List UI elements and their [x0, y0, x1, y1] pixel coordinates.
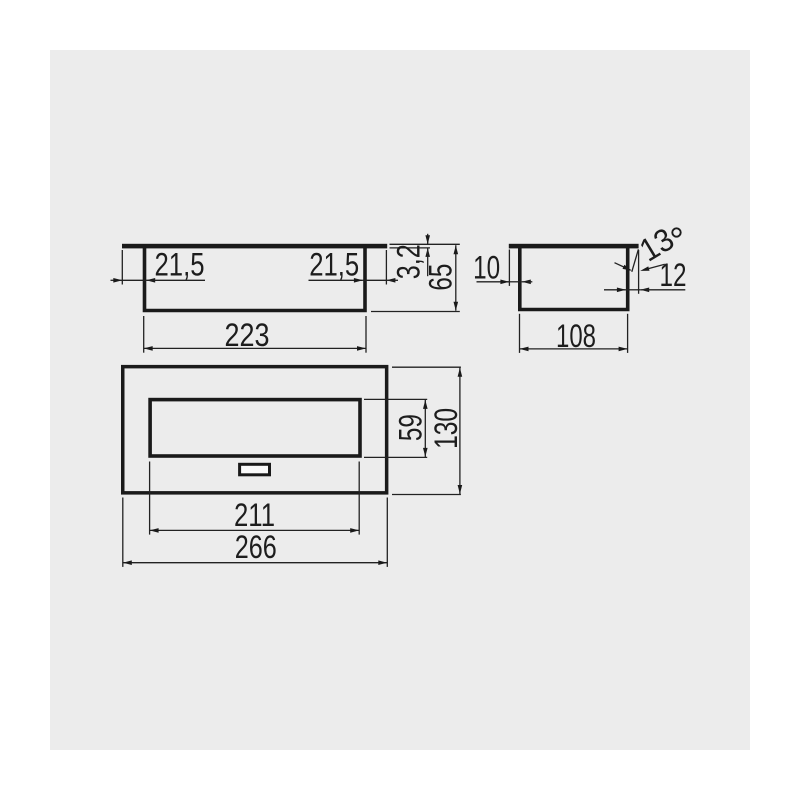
dim 21,5 left: inner tail: [146, 279, 205, 281]
angle leader left arrow: [623, 265, 632, 271]
dim 21,5 right: outer tail: [386, 279, 398, 281]
dim 130: arrow up: [458, 368, 463, 377]
dim 12: arrow right: [617, 288, 626, 293]
svg-text:130: 130: [428, 408, 464, 449]
extension line flange left edge V2: [508, 250, 510, 286]
extension line 211 left: [149, 462, 151, 535]
angle leader right arrow: [640, 266, 649, 271]
outer frame rect: [123, 367, 387, 493]
svg-text:108: 108: [556, 318, 596, 354]
body box V1 (U profile): [145, 248, 366, 311]
handle rect: [240, 464, 270, 475]
dim 266: arrow at right: [378, 560, 387, 565]
dim 21,5 right: span line: [363, 279, 387, 281]
flange plate V1: [122, 244, 387, 249]
drawing canvas background: [50, 50, 750, 750]
svg-text:59: 59: [393, 414, 429, 441]
dim 10: inner tail: [522, 281, 533, 283]
extension line 266 right: [386, 498, 388, 567]
dim 108: line: [520, 348, 628, 350]
dim 21,5 left: span line: [122, 279, 146, 281]
dim 211: line: [150, 529, 360, 531]
svg-text:3,2: 3,2: [391, 244, 427, 279]
dim 108: arrow at right: [619, 347, 628, 352]
extension line flange right edge V2: [638, 250, 640, 294]
dim 130: line: [459, 367, 461, 494]
extension line 59 bottom: [364, 456, 427, 458]
extension line 223 right: [365, 316, 367, 353]
svg-text:21,5: 21,5: [155, 246, 205, 282]
dim 266: line: [123, 562, 388, 564]
dim 130: arrow down: [458, 485, 463, 494]
dim 12: inner tail: [604, 289, 626, 291]
extension line 108 left: [519, 314, 521, 353]
flange plate V2: [509, 244, 639, 249]
dim 59: arrow down: [423, 448, 428, 457]
extension line flange bottom (for 3,2): [390, 247, 431, 249]
dim 59: line: [424, 399, 426, 457]
svg-text:65: 65: [423, 264, 459, 291]
dim 12: arrow left: [640, 288, 649, 293]
inner opening rect: [150, 400, 360, 456]
degree circle of 13 deg label: [672, 228, 680, 236]
dim 21,5 right: arrow right: [354, 278, 363, 283]
extension line flange left edge: [121, 250, 123, 285]
svg-text:211: 211: [234, 497, 275, 533]
dim 21,5 left: outer tail: [111, 279, 123, 281]
extension line 108 right: [627, 314, 629, 353]
dim 266: arrow at left: [123, 560, 132, 565]
extension line 59 top: [364, 398, 427, 400]
dim 21,5 left: arrow right: [113, 278, 122, 283]
extension line flange right edge: [385, 250, 387, 285]
body box V2 (U profile): [520, 248, 628, 310]
svg-text:21,5: 21,5: [309, 246, 359, 282]
extension line 130 bottom: [392, 494, 461, 496]
angle leader right line: [648, 264, 665, 268]
dim 211: arrow at left: [150, 528, 159, 533]
dim 59: arrow up: [423, 400, 428, 409]
extension line flange top (for 3,2 and 65): [390, 243, 460, 245]
extension line 223 left: [143, 316, 145, 353]
extension line box bottom right (for 65): [371, 311, 460, 313]
dim 223: line: [144, 347, 366, 349]
dim 3,2: arrow up: [425, 248, 430, 257]
dim 108: arrow at left: [520, 347, 529, 352]
svg-text:10: 10: [473, 250, 500, 286]
dim 10: span line: [509, 281, 521, 283]
dim 21,5 left: arrow left: [146, 278, 155, 283]
dim 65: line: [455, 245, 457, 311]
dim 12: outer tail: [640, 289, 685, 291]
claw line 13 deg: [632, 249, 639, 271]
dim 223: arrow at right: [357, 346, 366, 351]
dim 223: arrow at left: [144, 346, 153, 351]
dim 10: arrow left: [522, 280, 531, 285]
dim 21,5 right: inner tail: [309, 279, 363, 281]
dim 211: arrow at right: [350, 528, 359, 533]
extension line 266 left: [122, 498, 124, 567]
angle leader left line: [615, 263, 631, 270]
dim 21,5 right: arrow left: [386, 278, 395, 283]
dim 65: arrow down: [454, 302, 459, 311]
dim 65: arrow up: [454, 245, 459, 254]
svg-text:266: 266: [235, 529, 277, 565]
dim 3,2: upper tail: [427, 234, 429, 245]
extension line 211 right: [358, 462, 360, 535]
svg-text:223: 223: [225, 317, 270, 353]
svg-text:12: 12: [660, 257, 687, 293]
dim 10: outer tail: [477, 281, 510, 283]
dim 3,2: arrow down: [425, 235, 430, 244]
extension line 130 top: [392, 366, 461, 368]
dim 10: arrow right: [500, 280, 509, 285]
dim 12: span line: [626, 289, 640, 291]
dim 3,2: lower tail: [427, 248, 429, 276]
